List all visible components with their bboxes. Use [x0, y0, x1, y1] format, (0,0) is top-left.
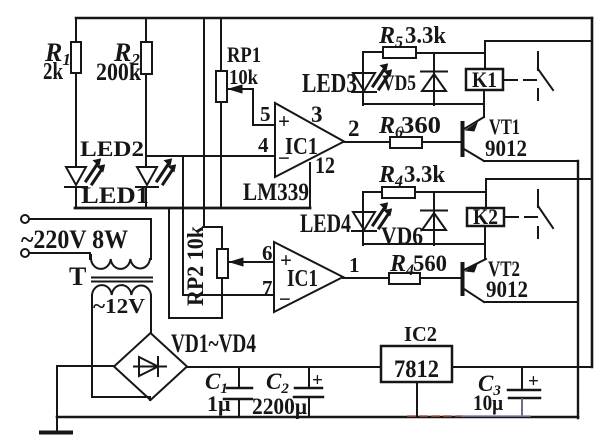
relay K1 contact [538, 52, 553, 100]
wire RP1 bottom to bus [220, 102, 222, 208]
capacitor C3 plates [508, 390, 540, 398]
wire LED2 cathode to bus [75, 188, 77, 208]
svg-text:9012: 9012 [485, 136, 527, 161]
svg-text:10μ: 10μ [473, 390, 503, 415]
svg-text:LM339: LM339 [243, 179, 309, 206]
resistor R6 360 [390, 137, 422, 148]
potentiometer RP2 wiper arrow [230, 258, 243, 266]
wire bridge plus to IC2 input [187, 366, 381, 368]
relay K2 dashed link [506, 216, 537, 218]
svg-text:+: + [528, 371, 539, 392]
resistor R5 3.3k [383, 47, 416, 58]
wire IC1b output to R4b [343, 277, 389, 279]
op-amp U1 comparator IC1a [275, 103, 344, 177]
wire R2 to LED1 [145, 74, 147, 167]
svg-text:200k: 200k [96, 59, 141, 86]
wire RP1 column upper [220, 18, 222, 71]
wire secondary right to bridge top [150, 295, 152, 333]
wire C1 leads [238, 368, 240, 417]
svg-text:560: 560 [413, 251, 447, 276]
transistor Q2 VT2 emitter lead [464, 289, 484, 302]
relay K1 coil box [466, 69, 503, 90]
svg-text:R4: R4 [378, 162, 403, 190]
svg-text:−: − [279, 287, 291, 311]
svg-text:LED3: LED3 [302, 68, 357, 98]
svg-text:12: 12 [315, 153, 335, 178]
wire R4a left link [363, 191, 382, 193]
wire IC2 output to right rail [452, 366, 592, 368]
wire K2 coil top lead [485, 179, 487, 208]
svg-text:3.3k: 3.3k [405, 23, 447, 49]
wire node A vertical to RP2 top [204, 18, 222, 249]
svg-text:6: 6 [262, 241, 273, 265]
wire R2 column upper [145, 18, 147, 42]
svg-text:1μ: 1μ [207, 391, 231, 416]
transistor Q1 VT1 base bar [461, 123, 465, 155]
terminal mains upper [21, 215, 29, 223]
wire C2 leads [308, 368, 310, 417]
potentiometer RP1 wiper arrow [229, 85, 242, 93]
terminal mains lower [21, 249, 29, 257]
wire R4a left vertical branch [362, 192, 364, 245]
wire VT1 emitter to rail x578 [484, 160, 578, 162]
capacitor C2 plates [294, 388, 323, 397]
svg-text:3.3k: 3.3k [404, 162, 446, 188]
wire LED1 cathode to bus [145, 188, 147, 208]
svg-text:R4: R4 [389, 251, 414, 279]
svg-text:3: 3 [311, 102, 323, 127]
wire RP2 bottom loop to bus [169, 208, 222, 318]
potentiometer RP2 body [217, 249, 228, 278]
wire LED4 VD6 bottom bus [363, 243, 485, 245]
watermark artifact red [408, 415, 462, 417]
wire rail x578 vertical [577, 161, 579, 418]
bridge rectifier VD1-VD4 diamond [114, 333, 187, 400]
wire R5 left vertical branch [362, 52, 364, 105]
wire reference bus horizontal [75, 207, 310, 210]
svg-text:R5: R5 [378, 23, 403, 51]
wire node B to pin7 [183, 156, 274, 295]
LED LED4 [352, 203, 392, 231]
svg-text:10k: 10k [229, 65, 258, 89]
bridge rectifier inner diode [134, 357, 166, 376]
svg-text:RP2 10k: RP2 10k [183, 226, 208, 306]
wire RP2 wiper to pin6 [230, 261, 274, 263]
svg-text:K1: K1 [472, 67, 497, 92]
wire K1 top to right rail [485, 40, 592, 42]
transformer T primary winding [91, 255, 151, 269]
svg-text:RP1: RP1 [227, 42, 261, 67]
wire R4b to VT2 base [420, 277, 461, 279]
wire right rail +12V [591, 18, 594, 367]
wire K1 bottom to VT1 collector [483, 90, 485, 117]
svg-text:1: 1 [349, 253, 360, 277]
relay K1 dashed link [505, 79, 536, 81]
wire IC1a output to R6 [344, 141, 390, 143]
svg-text:VD6: VD6 [381, 223, 423, 250]
resistor R1 [71, 42, 81, 73]
resistor R2 [141, 42, 152, 74]
LED LED1 [136, 159, 176, 187]
svg-text:LED2: LED2 [80, 136, 144, 161]
watermark artifact blue [462, 399, 530, 416]
relay K2 contact [538, 190, 553, 238]
svg-text:+: + [312, 370, 323, 391]
wire IC1 pin12 ground to bus [309, 163, 311, 208]
svg-text:LED4: LED4 [300, 209, 351, 238]
diode VD5 [421, 72, 447, 92]
transistor Q1 VT1 emitter arrow [466, 123, 477, 131]
wire R4a right link [415, 191, 486, 193]
svg-text:~12V: ~12V [93, 294, 145, 318]
ground [41, 431, 71, 435]
svg-text:~220V 8W: ~220V 8W [21, 225, 128, 254]
wire R5 left link [363, 51, 383, 53]
wire secondary left to bridge bottom [92, 397, 150, 400]
resistor R4b 560 [389, 273, 420, 284]
svg-text:T: T [69, 262, 86, 291]
wire inverting input pin4 [146, 155, 275, 157]
LED LED3 [352, 64, 392, 92]
wire RP1 wiper to pin5 [229, 89, 275, 125]
wire VT2 emitter to rail x578 [484, 301, 577, 303]
capacitor C1 plates [224, 388, 252, 399]
svg-text:2200μ: 2200μ [252, 394, 307, 419]
svg-text:4: 4 [258, 133, 269, 157]
svg-text:C2: C2 [266, 369, 289, 397]
wire K1 coil top lead [484, 41, 486, 69]
wire K2 bottom to VT2 collector [484, 226, 486, 259]
op-amp U2 comparator IC1b [274, 242, 343, 312]
svg-text:−: − [278, 146, 290, 170]
transistor Q2 VT2 collector lead [464, 259, 486, 270]
wire mains bottom lead [29, 253, 90, 259]
wire C3 leads [521, 368, 523, 417]
wire LED3 VD5 bottom bus [363, 103, 484, 105]
diode VD6 [421, 211, 447, 231]
wire R6 to VT1 base [422, 141, 461, 143]
svg-text:7812: 7812 [394, 356, 439, 383]
transistor Q1 VT1 emitter lead [464, 149, 484, 161]
LED LED2 [65, 159, 105, 187]
transistor Q2 VT2 emitter arrow [466, 264, 477, 272]
svg-text:VD5: VD5 [382, 70, 416, 95]
wire R5 right link [416, 52, 485, 54]
svg-text:VD1~VD4: VD1~VD4 [171, 329, 256, 358]
wire secondary left lead [91, 295, 93, 397]
wire VD6 vertical branch [433, 192, 435, 245]
wire K2 top wire to right rail [486, 178, 592, 180]
svg-text:360: 360 [401, 113, 441, 139]
transformer T core [92, 278, 152, 282]
wire top supply rail [76, 17, 592, 20]
transistor Q2 VT2 base bar [461, 264, 465, 294]
wire R1 column upper [75, 18, 77, 42]
svg-text:7: 7 [262, 276, 273, 300]
svg-text:2k: 2k [43, 59, 64, 85]
svg-text:+: + [280, 248, 292, 272]
potentiometer RP1 body [216, 71, 227, 102]
wire R1 to LED2 [75, 73, 77, 167]
svg-text:2: 2 [348, 116, 360, 141]
relay K2 coil box [467, 208, 504, 226]
wire VD5 vertical branch [433, 53, 435, 105]
svg-text:+: + [278, 109, 290, 133]
svg-text:5: 5 [260, 102, 271, 126]
svg-text:9012: 9012 [486, 277, 528, 302]
transformer T secondary winding [92, 285, 151, 295]
wire mains top lead [29, 219, 151, 259]
svg-text:R6: R6 [378, 113, 403, 141]
voltage regulator IC2 7812 box [381, 346, 452, 382]
resistor R4a 3.3k [382, 187, 415, 198]
wire bottom ground rail [57, 416, 578, 419]
transistor Q1 VT1 collector lead [464, 117, 484, 129]
svg-text:IC2: IC2 [404, 322, 437, 346]
wire bridge left to ground rail [57, 365, 114, 367]
svg-text:LED1: LED1 [81, 183, 149, 208]
wire IC2 ground pin [416, 382, 418, 417]
wire ground column [56, 366, 58, 433]
svg-text:K2: K2 [473, 204, 498, 229]
